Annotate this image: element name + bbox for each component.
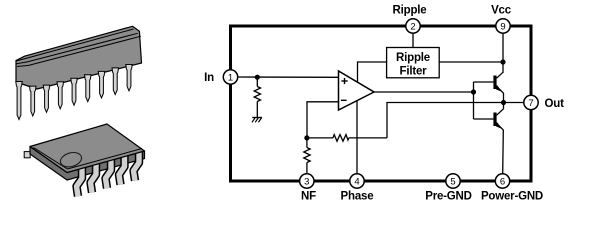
op-amp U1 bbox=[339, 71, 375, 110]
svg-text:NF: NF bbox=[301, 191, 316, 203]
resistor R1 (input to ground) bbox=[254, 77, 260, 117]
label Power-GND bbox=[481, 191, 543, 203]
pin 2 circle bbox=[406, 19, 420, 33]
ground bbox=[252, 118, 262, 123]
pin 6 circle bbox=[495, 174, 509, 188]
pin 5 circle bbox=[446, 174, 460, 188]
ripple filter box bbox=[387, 48, 440, 78]
wire: ripple filter to Vcc line bbox=[439, 61, 503, 63]
node: Vcc junction bbox=[500, 59, 505, 64]
pin 9 circle bbox=[496, 19, 510, 33]
svg-text:Filter: Filter bbox=[400, 66, 428, 78]
wire: feedback to output node bbox=[387, 103, 524, 138]
transistor Q1 bbox=[474, 72, 504, 103]
label In bbox=[204, 72, 214, 84]
node: output junction bbox=[501, 100, 506, 105]
label Ripple bbox=[393, 5, 427, 17]
node: feedback junction bbox=[304, 135, 309, 140]
wire: pin 2 to ripple filter bbox=[412, 33, 414, 47]
wire: ripple filter to op-amp top bbox=[358, 62, 387, 82]
wire: transistor base rail bbox=[473, 82, 475, 119]
svg-text:4: 4 bbox=[354, 177, 359, 188]
pin 4 circle bbox=[350, 174, 364, 188]
SIP package pins bbox=[16, 65, 132, 120]
transistor Q2 bbox=[474, 103, 504, 175]
svg-text:3: 3 bbox=[304, 177, 309, 188]
svg-text:Pre-GND: Pre-GND bbox=[425, 191, 472, 203]
svg-text:5: 5 bbox=[450, 177, 455, 188]
SOP pin-1 dimple bbox=[59, 150, 84, 169]
pin 7 circle bbox=[524, 95, 538, 109]
svg-text:Out: Out bbox=[545, 98, 565, 110]
svg-text:7: 7 bbox=[528, 98, 533, 109]
node: input junction bbox=[255, 75, 260, 80]
svg-text:Phase: Phase bbox=[341, 191, 374, 203]
node: base drive junction bbox=[471, 89, 476, 94]
svg-text:Power-GND: Power-GND bbox=[481, 191, 543, 203]
label Pre-GND bbox=[425, 191, 472, 203]
SOP package side band bbox=[30, 147, 145, 181]
SOP package gull-wing pins bbox=[77, 150, 140, 197]
svg-text:9: 9 bbox=[500, 22, 505, 33]
wire: op-amp minus input bbox=[307, 102, 339, 138]
svg-text:1: 1 bbox=[228, 73, 233, 84]
wire: In to op-amp + input bbox=[238, 76, 339, 78]
svg-text:Vcc: Vcc bbox=[491, 5, 512, 17]
SOP package top face bbox=[30, 124, 145, 173]
label Out bbox=[545, 98, 565, 110]
resistor R2 (feedback, horizontal) bbox=[307, 135, 387, 142]
label NF bbox=[301, 191, 316, 203]
svg-text:6: 6 bbox=[500, 177, 505, 188]
SOP package back pins bbox=[24, 152, 30, 158]
label Vcc bbox=[491, 5, 512, 17]
svg-text:2: 2 bbox=[410, 22, 415, 33]
svg-text:Ripple: Ripple bbox=[393, 5, 427, 17]
svg-text:Ripple: Ripple bbox=[396, 52, 430, 64]
pin 1 circle bbox=[223, 70, 237, 84]
wire: Vcc pin to Q1 collector bbox=[502, 33, 504, 72]
svg-text:In: In bbox=[204, 72, 214, 84]
SIP-9 package body bbox=[16, 26, 142, 89]
SIP bevel lines bbox=[16, 29, 141, 67]
wire: op-amp output bbox=[374, 91, 474, 93]
wire: phase pin to op-amp bbox=[356, 100, 358, 174]
SOP top face chamfer lines bbox=[34, 148, 143, 170]
pin 3 circle bbox=[300, 174, 314, 188]
label Phase bbox=[341, 191, 374, 203]
schematic border box bbox=[231, 26, 532, 181]
resistor R3 (NF, vertical) bbox=[304, 138, 310, 174]
